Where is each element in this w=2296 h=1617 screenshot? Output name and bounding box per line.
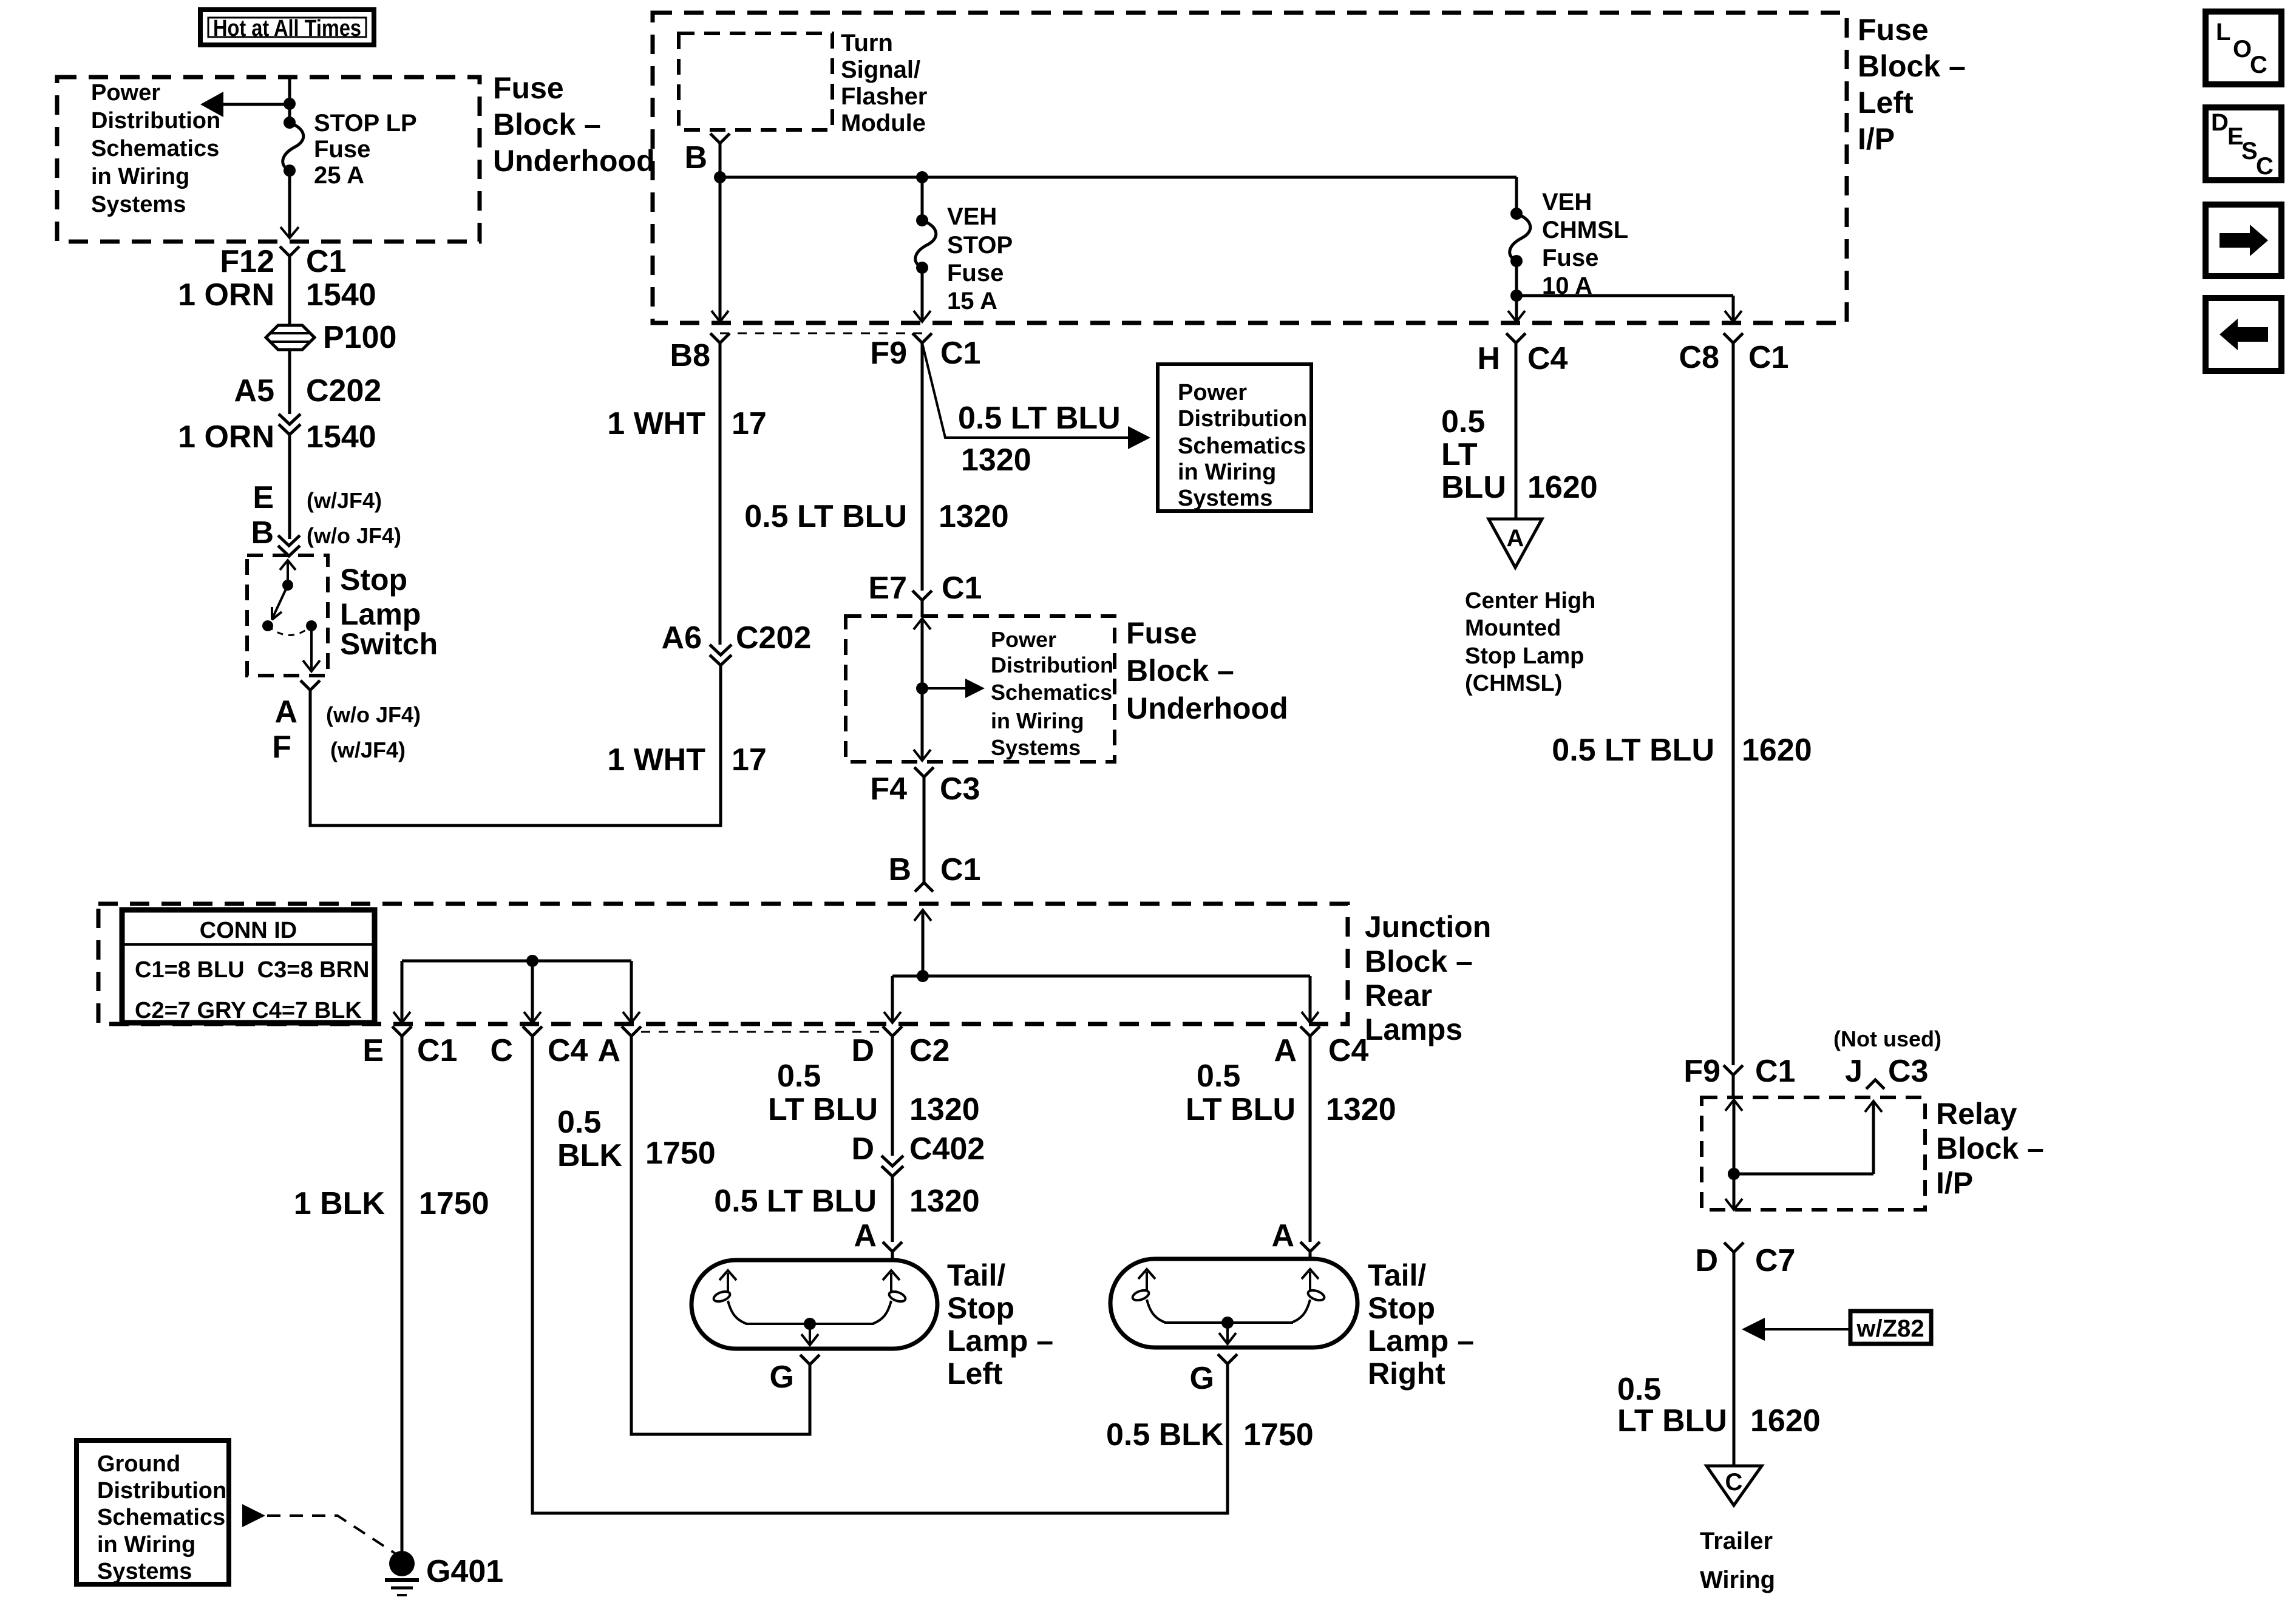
svg-text:Left: Left [1858, 86, 1914, 120]
svg-text:CHMSL: CHMSL [1542, 217, 1628, 243]
svg-text:P100: P100 [323, 320, 396, 355]
connector E C1 [362, 1026, 457, 1068]
svg-text:BLU: BLU [1441, 470, 1506, 505]
label "Fuse Block - Underhood" [493, 71, 655, 178]
wire B entry with up arrow [914, 910, 931, 976]
svg-text:0.5 LT BLU: 0.5 LT BLU [1552, 733, 1714, 768]
svg-text:0.5 LT BLU: 0.5 LT BLU [958, 401, 1121, 436]
svg-text:in Wiring: in Wiring [991, 708, 1084, 733]
svg-text:C1: C1 [417, 1033, 457, 1068]
svg-text:Stop: Stop [947, 1291, 1014, 1325]
wire relay internal with arrows [1725, 1100, 1882, 1210]
svg-text:C4: C4 [1328, 1033, 1369, 1068]
svg-text:Power: Power [991, 627, 1056, 652]
svg-text:Fuse: Fuse [314, 136, 370, 163]
wire 0.5 BLK 1750 from A to left lamp ground [557, 1036, 810, 1434]
svg-text:Ground: Ground [97, 1451, 180, 1477]
wire feed bus [720, 176, 1517, 179]
svg-text:Distribution: Distribution [1178, 406, 1307, 432]
svg-text:A6: A6 [662, 620, 702, 656]
svg-text:C4: C4 [548, 1033, 588, 1068]
wire 1 ORN 1540 lower [178, 419, 376, 539]
svg-text:17: 17 [732, 406, 767, 441]
pin labels E B with options [251, 480, 401, 551]
junction block rear lamps box (dashed) [98, 904, 1348, 1024]
svg-text:(w/o JF4): (w/o JF4) [307, 523, 401, 548]
svg-text:Lamp: Lamp [340, 597, 421, 631]
svg-text:C202: C202 [736, 620, 811, 656]
svg-text:Fuse: Fuse [1126, 616, 1197, 650]
label "Tail/Stop Lamp - Left" [947, 1258, 1053, 1391]
node junction to power distribution arrow [284, 98, 296, 110]
label "Fuse Block - Left I/P" [1858, 13, 1966, 156]
svg-text:F12: F12 [220, 244, 274, 279]
svg-text:C1: C1 [942, 571, 982, 606]
wire 0.5 LT BLU 1620 from H C4 to CHMSL [1441, 343, 1598, 519]
svg-text:Rear: Rear [1365, 978, 1432, 1012]
svg-text:A: A [1274, 1033, 1297, 1068]
svg-text:Switch: Switch [340, 627, 438, 661]
connector F12 C1 [220, 244, 346, 279]
svg-text:B: B [888, 852, 911, 887]
svg-text:Flasher: Flasher [841, 83, 927, 110]
svg-text:Block –: Block – [1936, 1131, 2044, 1165]
wire 0.5 LT BLU 1320 from D C2 [768, 1036, 980, 1156]
note box "Ground Distribution Schematics in Wiring Systems" [76, 1440, 229, 1584]
svg-text:1320: 1320 [961, 442, 1031, 478]
relay block I/P box (dashed) [1702, 1097, 1925, 1210]
wire F4 to B [923, 777, 926, 882]
wire 0.5 LT BLU 1320 to right lamp A [1186, 1036, 1396, 1242]
svg-text:Tail/: Tail/ [947, 1258, 1005, 1292]
svg-text:A: A [597, 1033, 620, 1068]
wire through fuse block with arrows [914, 619, 931, 761]
svg-text:D: D [1695, 1243, 1718, 1278]
connector A C4 [1274, 1026, 1368, 1068]
svg-text:Left: Left [947, 1357, 1003, 1391]
svg-text:C402: C402 [909, 1131, 985, 1167]
svg-text:Stop Lamp: Stop Lamp [1465, 643, 1584, 669]
wire bus corner to VEH CHMSL fuse [1515, 177, 1518, 214]
wire 0.5 LT BLU 1320 to left lamp A [714, 1176, 979, 1242]
connector D C402 [851, 1131, 985, 1176]
svg-text:0.5 BLK: 0.5 BLK [1106, 1417, 1224, 1453]
svg-text:I/P: I/P [1858, 122, 1895, 156]
svg-text:1 WHT: 1 WHT [607, 742, 705, 778]
svg-text:C: C [490, 1033, 513, 1068]
svg-text:Trailer: Trailer [1700, 1528, 1773, 1554]
svg-text:Turn: Turn [841, 30, 893, 56]
svg-text:1750: 1750 [645, 1136, 716, 1171]
svg-text:Block –: Block – [493, 107, 601, 141]
svg-text:1 ORN: 1 ORN [178, 277, 274, 313]
svg-text:C2: C2 [909, 1033, 949, 1068]
svg-text:w/Z82: w/Z82 [1856, 1315, 1924, 1342]
wire 1 BLK 1750 to ground [294, 1036, 489, 1551]
svg-text:Schematics: Schematics [991, 680, 1112, 705]
connector B8 [670, 333, 730, 373]
svg-text:BLK: BLK [557, 1138, 622, 1173]
wire dashed tie B8 to F9 [720, 333, 922, 334]
wire from switch to B8 branch [310, 665, 721, 825]
svg-text:F4: F4 [870, 771, 907, 807]
svg-text:Fuse: Fuse [947, 260, 1004, 286]
svg-text:D: D [851, 1033, 874, 1068]
svg-text:Systems: Systems [91, 192, 186, 217]
connector F4 C3 [870, 767, 980, 807]
svg-text:25 A: 25 A [314, 162, 364, 189]
svg-text:Block –: Block – [1858, 49, 1966, 83]
svg-text:in Wiring: in Wiring [91, 164, 189, 189]
svg-text:0.5: 0.5 [777, 1059, 821, 1094]
connector D C7 [1695, 1242, 1795, 1278]
wire internal ground bus [393, 955, 640, 1023]
label "Center High Mounted Stop Lamp (CHMSL)" [1465, 588, 1595, 696]
svg-text:1540: 1540 [306, 277, 376, 313]
wire 0.5 LT BLU 1320 from F9 to E7 [744, 343, 1008, 591]
svg-text:1750: 1750 [419, 1186, 489, 1221]
svg-text:Wiring: Wiring [1700, 1567, 1775, 1593]
svg-text:Lamps: Lamps [1365, 1012, 1462, 1046]
wire internal bus to D and A outputs [884, 976, 1319, 1023]
svg-text:C2=7 GRY C4=7 BLK: C2=7 GRY C4=7 BLK [135, 998, 362, 1023]
svg-text:G401: G401 [426, 1554, 503, 1589]
svg-text:C202: C202 [306, 373, 381, 408]
connector A (left) [597, 1026, 641, 1068]
svg-text:Distribution: Distribution [91, 108, 220, 134]
wire VEH STOP fuse output [914, 268, 931, 322]
value label STOP LP Fuse 25 A [314, 110, 417, 189]
svg-text:C1: C1 [940, 336, 980, 371]
svg-text:Stop: Stop [1368, 1291, 1435, 1325]
label box w/Z82 [1850, 1311, 1931, 1344]
svg-text:H: H [1477, 341, 1500, 376]
svg-text:STOP: STOP [947, 232, 1013, 259]
svg-text:O: O [2233, 36, 2252, 63]
icon previous arrow button [2206, 298, 2281, 371]
node bus junction at B wire [714, 171, 726, 183]
svg-text:Power: Power [1178, 380, 1247, 405]
arrow w/Z82 to wire [1742, 1318, 1850, 1341]
connector E/B inline [278, 535, 300, 556]
arrow dashed from ground note to G401 [242, 1504, 396, 1554]
connector triangle A CHMSL [1489, 519, 1542, 568]
svg-text:1320: 1320 [909, 1092, 980, 1127]
wire label 0.5 BLK 1750 right lamp [1106, 1417, 1314, 1453]
node junction B distribution [917, 970, 929, 982]
svg-text:L: L [2216, 19, 2230, 46]
wire from box top to fuse [288, 77, 291, 123]
svg-text:in Wiring: in Wiring [97, 1532, 195, 1558]
switch contacts and arm [262, 560, 320, 671]
svg-text:F: F [272, 730, 291, 765]
svg-text:in Wiring: in Wiring [1178, 459, 1276, 485]
wire 1 WHT 17 [607, 343, 767, 645]
svg-text:Signal/: Signal/ [841, 56, 920, 83]
svg-text:C1: C1 [1755, 1054, 1795, 1089]
wire 0.5 LT BLU 1620 to trailer [1617, 1252, 1821, 1466]
connector F9 C1 [870, 333, 980, 371]
icon LOC button [2206, 12, 2281, 84]
svg-text:CONN ID: CONN ID [200, 918, 297, 943]
svg-text:Stop: Stop [340, 563, 407, 597]
svg-text:I/P: I/P [1936, 1166, 1973, 1200]
stop lamp switch box (dashed) [247, 555, 328, 676]
svg-text:F9: F9 [1683, 1054, 1720, 1089]
svg-text:A: A [1271, 1218, 1294, 1253]
svg-text:C3: C3 [940, 771, 980, 807]
svg-text:1 BLK: 1 BLK [294, 1186, 385, 1221]
svg-text:1620: 1620 [1527, 470, 1598, 505]
wire to C202 [288, 350, 291, 414]
svg-text:Systems: Systems [991, 735, 1081, 760]
arrow to power distribution schematics [200, 92, 290, 117]
svg-text:0.5 LT BLU: 0.5 LT BLU [744, 499, 907, 534]
svg-text:1320: 1320 [1326, 1092, 1396, 1127]
svg-text:(w/o JF4): (w/o JF4) [326, 702, 421, 727]
svg-text:Fuse: Fuse [1542, 245, 1598, 271]
svg-text:Center High: Center High [1465, 588, 1595, 614]
svg-text:0.5: 0.5 [1617, 1372, 1661, 1407]
svg-text:Module: Module [841, 110, 926, 137]
icon next arrow button [2206, 205, 2281, 276]
arrow to schematics note [922, 679, 985, 698]
fuse VEH STOP 15A [915, 177, 936, 274]
svg-text:A: A [854, 1218, 877, 1253]
svg-text:Relay: Relay [1936, 1097, 2017, 1131]
svg-text:Lamp –: Lamp – [947, 1324, 1053, 1358]
svg-text:A: A [1507, 525, 1524, 552]
svg-text:Power: Power [91, 80, 160, 106]
svg-text:LT BLU: LT BLU [1617, 1403, 1727, 1439]
lamp tail/stop left [691, 1260, 937, 1349]
svg-text:0.5: 0.5 [557, 1105, 601, 1140]
connector A6 C202 [662, 620, 812, 665]
svg-text:Fuse: Fuse [493, 71, 564, 105]
label "Turn Signal/Flasher Module" [841, 30, 927, 137]
svg-text:C8: C8 [1679, 340, 1719, 375]
connector G right lamp [1190, 1354, 1237, 1396]
svg-text:17: 17 [732, 742, 767, 778]
svg-text:0.5: 0.5 [1197, 1059, 1240, 1094]
wire branch to C8 [1517, 296, 1742, 322]
svg-text:D: D [2211, 109, 2229, 136]
svg-text:C4: C4 [1527, 341, 1568, 376]
svg-text:Junction: Junction [1365, 910, 1491, 944]
svg-text:STOP LP: STOP LP [314, 110, 417, 137]
svg-text:C1: C1 [940, 852, 980, 887]
fuse block underhood box (dashed) [57, 77, 480, 242]
ground G401 [385, 1551, 503, 1595]
svg-text:0.5 LT BLU: 0.5 LT BLU [714, 1184, 877, 1219]
fuse STOP LP 25A [283, 117, 304, 177]
svg-text:C1: C1 [306, 244, 346, 279]
svg-text:1320: 1320 [909, 1184, 980, 1219]
svg-text:1620: 1620 [1742, 733, 1812, 768]
wire fuse output with arrow into box edge [280, 171, 299, 238]
svg-text:Mounted: Mounted [1465, 615, 1561, 641]
wire 0.5 BLK 1750 from C C4 to right lamp ground [532, 1036, 1228, 1513]
svg-text:Underhood: Underhood [493, 144, 655, 178]
svg-text:E7: E7 [868, 571, 907, 606]
label "Relay Block - I/P" [1936, 1097, 2044, 1200]
svg-text:Schematics: Schematics [91, 136, 219, 161]
svg-text:(Not used): (Not used) [1833, 1026, 1941, 1051]
connector A5 C202 [234, 373, 382, 435]
connector J C3 [1845, 1054, 1928, 1089]
fuse block underhood box 2 (dashed) [846, 616, 1115, 762]
connector B C1 [888, 852, 980, 892]
connector D C2 [851, 1026, 949, 1068]
svg-text:D: D [851, 1131, 874, 1167]
svg-text:B: B [684, 140, 707, 175]
wire 0.5 LT BLU 1620 from C8 C1 to relay block [1552, 343, 1812, 1065]
pin B of flasher module [684, 134, 730, 175]
icon DESC button [2206, 107, 2281, 180]
label "Fuse Block - Underhood" 2 [1126, 616, 1288, 725]
svg-text:Fuse: Fuse [1858, 13, 1929, 47]
svg-text:C1=8 BLU C3=8 BRN: C1=8 BLU C3=8 BRN [135, 957, 369, 983]
CONN ID table [122, 910, 375, 1023]
svg-text:Hot at All Times: Hot at All Times [213, 16, 361, 41]
svg-text:A: A [274, 694, 297, 730]
svg-text:C3: C3 [1888, 1054, 1928, 1089]
svg-text:LT: LT [1441, 437, 1478, 472]
node CHMSL branch junction [1510, 290, 1523, 302]
wire dashed tie A to D [641, 1031, 883, 1033]
connector A right lamp [1271, 1218, 1320, 1260]
svg-text:1540: 1540 [306, 419, 376, 455]
note "Power Distribution Schematics in Wiring Systems" inner [991, 627, 1113, 760]
svg-text:E: E [362, 1033, 384, 1068]
node bus junction at VEH STOP fuse [916, 171, 928, 183]
svg-text:1750: 1750 [1243, 1417, 1314, 1453]
svg-text:VEH: VEH [947, 203, 997, 230]
connector G left lamp [770, 1355, 820, 1395]
connector H C4 [1477, 333, 1567, 376]
svg-text:Underhood: Underhood [1126, 691, 1288, 725]
svg-text:Schematics: Schematics [1178, 433, 1306, 459]
fuse block left I/P box (dashed) [653, 13, 1847, 323]
svg-text:Distribution: Distribution [991, 653, 1113, 677]
connector A/F [272, 680, 421, 765]
svg-text:J: J [1845, 1054, 1863, 1089]
svg-text:15 A: 15 A [947, 288, 997, 314]
svg-text:E: E [253, 480, 274, 515]
svg-text:Schematics: Schematics [97, 1505, 225, 1530]
svg-text:1 ORN: 1 ORN [178, 419, 274, 455]
label "Tail/Stop Lamp - Right" [1368, 1258, 1474, 1391]
wire pin B down through box [712, 143, 729, 322]
wire callout 0.5 LT BLU 1320 to power distribution [922, 343, 1150, 478]
wire 1 ORN 1540 [178, 256, 376, 327]
svg-text:1620: 1620 [1750, 1403, 1821, 1439]
turn signal flasher module box (dashed) [679, 33, 832, 130]
svg-text:B8: B8 [670, 338, 710, 373]
svg-text:Right: Right [1368, 1357, 1445, 1391]
svg-text:(w/JF4): (w/JF4) [330, 737, 406, 762]
svg-text:A5: A5 [234, 373, 274, 408]
svg-text:LT BLU: LT BLU [768, 1092, 878, 1127]
svg-text:G: G [1190, 1361, 1214, 1396]
label "Stop Lamp Switch" [340, 563, 438, 661]
svg-text:F9: F9 [870, 336, 907, 371]
wire 1 WHT 17 lower [607, 742, 767, 778]
value label VEH STOP Fuse 15 A [947, 203, 1013, 314]
svg-text:Tail/: Tail/ [1368, 1258, 1426, 1292]
connector F9 C1 relay [1683, 1054, 1795, 1096]
wire CHMSL fuse output [1508, 261, 1525, 322]
connector E7 C1 [868, 571, 982, 617]
label "Hot at All Times" [200, 10, 374, 45]
svg-text:B: B [251, 515, 274, 551]
svg-text:VEH: VEH [1542, 189, 1592, 215]
svg-text:Systems: Systems [1178, 486, 1272, 511]
note box "Power Distribution Schematics in Wiring Systems" [1158, 364, 1311, 511]
svg-text:C: C [1725, 1469, 1743, 1496]
svg-text:(CHMSL): (CHMSL) [1465, 671, 1562, 696]
svg-text:1320: 1320 [939, 499, 1009, 534]
svg-text:0.5: 0.5 [1441, 404, 1485, 439]
label "Trailer Wiring" [1700, 1528, 1775, 1593]
svg-text:C: C [2250, 52, 2267, 78]
svg-text:Distribution: Distribution [97, 1478, 226, 1503]
pass-through connector P100 [266, 320, 396, 355]
svg-text:Block –: Block – [1365, 944, 1473, 978]
connector A left lamp [854, 1218, 902, 1261]
svg-text:S: S [2241, 138, 2258, 164]
value label VEH CHMSL Fuse 10 A [1542, 189, 1628, 299]
svg-text:(w/JF4): (w/JF4) [307, 488, 382, 513]
label "Junction Block - Rear Lamps" [1365, 910, 1491, 1046]
svg-text:1 WHT: 1 WHT [607, 406, 705, 441]
note "Power Distribution Schematics in Wiring Systems" [91, 80, 220, 217]
svg-text:Systems: Systems [97, 1559, 192, 1584]
svg-text:Lamp –: Lamp – [1368, 1324, 1474, 1358]
connector triangle C trailer wiring [1707, 1466, 1762, 1505]
fuse VEH CHMSL 10A [1510, 208, 1530, 267]
svg-text:C7: C7 [1755, 1243, 1795, 1278]
svg-text:C: C [2256, 153, 2274, 180]
svg-text:G: G [770, 1360, 794, 1395]
svg-text:Block –: Block – [1126, 654, 1234, 688]
connector C8 C1 [1679, 333, 1789, 375]
node arrow junction in fuse block [916, 682, 928, 694]
svg-text:C1: C1 [1748, 340, 1788, 375]
svg-text:LT BLU: LT BLU [1186, 1092, 1296, 1127]
connector C C4 [490, 1026, 588, 1068]
lamp tail/stop right [1110, 1259, 1357, 1347]
